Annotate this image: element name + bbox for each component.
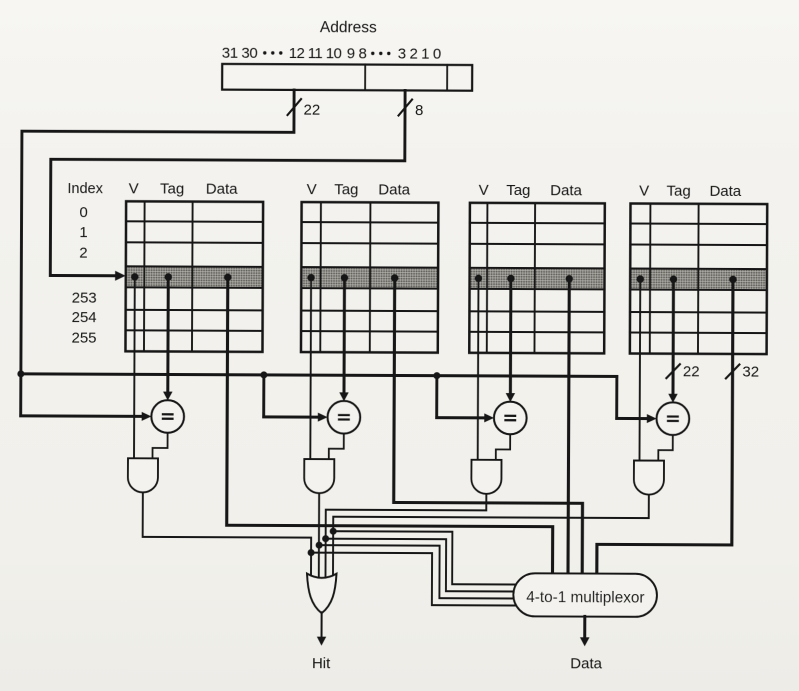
- arrowhead index into table: [115, 271, 126, 281]
- junction dot bus way3: [433, 372, 440, 379]
- select branch way2 to mux: [319, 545, 522, 598]
- valid line way3: [477, 278, 480, 459]
- svg-text:Data: Data: [550, 182, 582, 199]
- cache table way4: [630, 204, 767, 355]
- slash tag way4: [666, 364, 680, 378]
- junction dot or-input way3: [322, 535, 329, 542]
- wire tag from address: [21, 89, 294, 417]
- data line way3: [568, 279, 569, 581]
- svg-text:2: 2: [79, 245, 87, 262]
- slash data way4: [726, 364, 740, 378]
- comparator U3: [494, 402, 527, 435]
- ellipsis dots: [371, 52, 390, 55]
- svg-text:Data: Data: [378, 181, 410, 198]
- select branch way4 to mux: [333, 531, 522, 584]
- slash tag width: [288, 99, 302, 115]
- svg-text:32: 32: [742, 363, 759, 380]
- wire bus drop way2: [262, 375, 265, 417]
- data line way4: [597, 279, 733, 582]
- svg-text:0: 0: [79, 204, 87, 221]
- svg-text:22: 22: [303, 102, 320, 119]
- svg-text:8: 8: [415, 102, 423, 119]
- comparator output way2: [329, 433, 344, 459]
- svg-text:V: V: [479, 182, 489, 199]
- tag line way2: [342, 278, 346, 394]
- address field divider 2: [446, 65, 448, 91]
- wire bus drop way4: [615, 376, 618, 418]
- svg-text:1: 1: [79, 224, 87, 241]
- tag line way4: [671, 279, 675, 395]
- cache table way1: [125, 201, 263, 352]
- row select dots way1: [131, 273, 232, 281]
- svg-text:255: 255: [71, 330, 96, 347]
- row select dots way4: [636, 275, 736, 283]
- svg-text:31 30: 31 30: [222, 45, 258, 62]
- valid line way2: [309, 278, 312, 459]
- svg-text:V: V: [307, 181, 317, 198]
- svg-text:254: 254: [72, 309, 97, 326]
- and gate A3: [471, 460, 501, 494]
- svg-text:Data: Data: [206, 181, 238, 198]
- junction dot bus left: [17, 370, 24, 377]
- select branch way1 to mux: [311, 553, 522, 606]
- comparator output way4: [658, 435, 673, 461]
- comparator output way1: [153, 433, 168, 459]
- svg-text:Data: Data: [709, 183, 741, 200]
- slash index width: [399, 99, 413, 115]
- svg-text:Tag: Tag: [667, 183, 691, 200]
- and gate A1: [128, 458, 158, 492]
- tag bus horizontal: [21, 374, 617, 377]
- cache table way2: [301, 202, 438, 353]
- svg-text:12 11 10: 12 11 10: [289, 45, 342, 62]
- wire to comparator2 left: [264, 415, 319, 418]
- comparator U2: [328, 401, 361, 434]
- junction dot or-input way4: [330, 528, 337, 535]
- svg-text:Tag: Tag: [334, 181, 358, 198]
- row select dots way2: [307, 274, 398, 282]
- and gate A4: [634, 461, 664, 495]
- svg-text:Index: Index: [67, 181, 103, 197]
- wire to comparator1 left: [21, 414, 143, 417]
- multiplexor U5: [513, 573, 657, 617]
- and gate A2: [304, 459, 334, 493]
- cache table way3: [469, 203, 605, 354]
- wire index from address: [50, 89, 405, 277]
- svg-text:4-to-1 multiplexor: 4-to-1 multiplexor: [526, 589, 644, 607]
- and gate output way4: [333, 493, 649, 582]
- address field divider 1: [364, 65, 366, 91]
- svg-text:3 2 1 0: 3 2 1 0: [398, 45, 441, 62]
- junction dot or-input way1: [308, 549, 315, 556]
- svg-text:9 8: 9 8: [347, 45, 367, 62]
- or gate O1: [307, 574, 337, 614]
- wire to comparator3 left: [437, 416, 486, 419]
- wire bus drop way3: [435, 376, 438, 418]
- svg-text:22: 22: [683, 363, 700, 380]
- mux output wire: [583, 616, 586, 637]
- or output wire: [321, 612, 323, 637]
- svg-text:Tag: Tag: [506, 182, 530, 199]
- svg-text:Address: Address: [320, 19, 377, 36]
- and gate output way1: [142, 492, 311, 580]
- tag line way1: [166, 277, 170, 393]
- svg-text:V: V: [129, 180, 139, 197]
- ellipsis dots: [263, 51, 282, 54]
- comparator U4: [657, 402, 690, 435]
- and gate output way2: [318, 493, 320, 580]
- junction dot or-input way2: [316, 542, 323, 549]
- select branch way3 to mux: [325, 539, 522, 592]
- valid line way1: [133, 277, 136, 458]
- index row labels: [71, 204, 97, 347]
- svg-text:Data: Data: [570, 655, 602, 672]
- junction dot bus way2: [260, 371, 267, 378]
- svg-text:253: 253: [72, 290, 97, 307]
- comparator U1: [151, 400, 184, 433]
- tag line way3: [509, 278, 513, 394]
- svg-text:V: V: [639, 183, 649, 200]
- wire to comparator4 left: [617, 417, 648, 420]
- row select dots way3: [475, 275, 573, 283]
- valid line way4: [638, 279, 641, 460]
- data line way2: [393, 278, 583, 581]
- comparator output way3: [496, 434, 510, 460]
- svg-text:Tag: Tag: [160, 180, 184, 197]
- and gate output way3: [325, 493, 486, 581]
- svg-text:Hit: Hit: [312, 655, 331, 672]
- data line way1: [226, 277, 553, 580]
- address box: [222, 64, 472, 91]
